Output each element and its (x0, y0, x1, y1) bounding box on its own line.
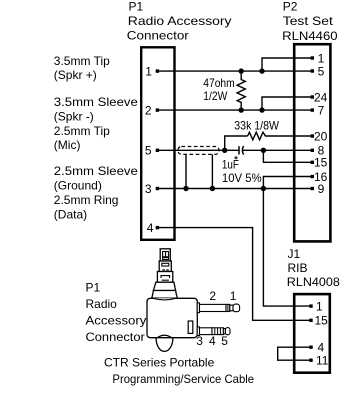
svg-text:15: 15 (315, 314, 329, 328)
P1 pin 1 (145, 64, 159, 78)
node junction R1 top (239, 68, 244, 73)
resistor R2 33k 1/8W horizontal (248, 132, 313, 140)
svg-text:33k 1/8W: 33k 1/8W (234, 119, 279, 133)
plug pin labels 3 4 5 (196, 334, 228, 348)
svg-text:Connector: Connector (86, 330, 145, 344)
capacitor C1 right curved plate (242, 146, 243, 155)
P2 title label (282, 0, 338, 43)
boot C inner detail (161, 276, 170, 281)
svg-text:7: 7 (318, 103, 325, 117)
svg-text:3.5mm Tip: 3.5mm Tip (54, 54, 110, 68)
svg-text:RIB: RIB (288, 261, 308, 275)
connector J1 box (294, 294, 330, 373)
svg-text:Test Set: Test Set (283, 14, 334, 28)
boot/body junction sag arc (154, 298, 176, 300)
capacitor C1 left plate (238, 146, 240, 154)
wire net SPKR+ : P1.1 to P2.5 (157, 70, 312, 72)
svg-text:3: 3 (145, 182, 152, 196)
bottom P1 plug label (86, 281, 147, 345)
2.5mm plug tip (223, 329, 225, 334)
value label 1uF 10V 5% (222, 157, 262, 185)
bottom dome boss (156, 338, 173, 352)
svg-text:Connector: Connector (127, 29, 189, 43)
shield drain wire left (185, 154, 187, 188)
svg-text:Programming/Service Cable: Programming/Service Cable (112, 372, 254, 386)
left pin function labels (54, 54, 138, 221)
J1 title label (287, 247, 340, 289)
svg-text:9: 9 (318, 182, 325, 196)
cable boot segment B (159, 261, 171, 272)
cable boot flare (153, 282, 175, 290)
wire net GROUND : P1.3 to P2.9 (157, 188, 312, 190)
P1 plug drawing: cable boot segment A (top) (160, 249, 170, 261)
svg-text:Accessory: Accessory (86, 314, 147, 328)
svg-text:4: 4 (209, 334, 216, 348)
svg-text:1uF: 1uF (222, 157, 239, 171)
P1 pin 5 (145, 144, 159, 158)
svg-text:10V 5%: 10V 5% (222, 171, 262, 185)
svg-text:11: 11 (316, 354, 329, 368)
svg-text:5: 5 (221, 334, 228, 348)
node junction shield left / ground (183, 186, 188, 191)
2.5mm plug (bottom): collar (197, 327, 199, 336)
2.5mm plug ring stripes (212, 328, 223, 335)
P1 pin 3 (145, 182, 159, 196)
svg-text:4: 4 (318, 341, 325, 355)
svg-text:3.5mm Sleeve: 3.5mm Sleeve (54, 95, 138, 109)
svg-text:2.5mm Ring: 2.5mm Ring (54, 193, 119, 207)
3.5mm plug tip (230, 305, 233, 311)
wire P2 pin 16 to ground to J1 pin 1 (263, 177, 312, 307)
svg-text:(Data): (Data) (54, 207, 87, 221)
3.5mm plug shaft (200, 304, 227, 311)
2.5mm plug shaft (200, 328, 213, 335)
svg-text:J1: J1 (288, 247, 301, 261)
shield drain wire right (211, 154, 213, 188)
node junction mic/C1/P2.15 (261, 148, 266, 153)
svg-text:CTR Series Portable: CTR Series Portable (104, 356, 215, 370)
node junction mic/33k (222, 148, 227, 153)
J1 pin 15 (309, 314, 328, 328)
svg-text:1: 1 (145, 64, 152, 78)
P2 pin 24 (311, 90, 328, 104)
P2 pin 8 (311, 144, 325, 158)
svg-text:(Mic): (Mic) (54, 138, 81, 152)
svg-text:5: 5 (318, 64, 325, 78)
node junction branch to P2.1 (259, 68, 264, 73)
svg-text:2: 2 (145, 103, 152, 117)
P1 pin 4 (147, 221, 159, 235)
P2 pin 9 (311, 182, 325, 196)
connector P1 box (141, 47, 174, 240)
latch detail rectangle (188, 321, 193, 333)
svg-text:24: 24 (314, 90, 328, 104)
boot B inner detail (162, 263, 169, 270)
resistor R1 47ohm 1/2W vertical (237, 71, 245, 110)
P2 pin 1 (311, 51, 325, 65)
3.5mm plug (top): collar (197, 303, 199, 313)
dome top arc detail (157, 335, 172, 337)
P2 pin 16 (311, 170, 328, 184)
wire net DATA : P1.4 to J1 pin 15 (157, 228, 311, 321)
boot A inner detail (163, 252, 169, 260)
node junction shield right / ground (210, 186, 215, 191)
svg-text:3: 3 (196, 334, 203, 348)
svg-text:(Ground): (Ground) (54, 179, 102, 193)
svg-text:P1: P1 (129, 0, 144, 13)
P2 pin 7 (311, 103, 325, 117)
plug body (147, 298, 197, 337)
cable boot flare base (152, 291, 178, 299)
J1 pin 1 (309, 299, 323, 313)
svg-text:20: 20 (314, 129, 328, 143)
P2 pin 15 (311, 156, 328, 170)
svg-text:1/2W: 1/2W (203, 89, 228, 103)
wire branch to P2 pin 24 (262, 97, 312, 110)
svg-text:1: 1 (318, 51, 325, 65)
cable boot segment C (157, 272, 172, 283)
svg-text:P1: P1 (86, 281, 101, 295)
J1 pin 11 (309, 354, 328, 368)
P1 title label (127, 0, 232, 43)
3.5mm plug insulator ring (226, 304, 230, 311)
P1 pin 2 (145, 103, 159, 117)
wire net MIC : P1.5 to C1 to P2.8 (157, 149, 238, 151)
connector P2 box (294, 44, 330, 241)
svg-text:2.5mm Sleeve: 2.5mm Sleeve (54, 164, 138, 178)
shield of mic cable (dashed) (178, 147, 219, 155)
J1 pin 4 (309, 341, 324, 355)
value label 47ohm 1/2W (203, 76, 234, 103)
plug pin labels 2 1 (209, 289, 236, 303)
C1 polarity plus mark (234, 156, 237, 159)
svg-text:5: 5 (145, 144, 152, 158)
svg-text:RLN4460: RLN4460 (282, 29, 338, 43)
svg-text:Radio Accessory: Radio Accessory (128, 14, 232, 28)
P2 pin 5 (311, 64, 325, 78)
wire J1 pin 4 to pin 11 loop (278, 347, 311, 360)
svg-text:(Spkr -): (Spkr -) (54, 109, 94, 123)
caption (104, 356, 254, 386)
wire branch to P2 pin 1 (262, 58, 312, 71)
wire branch 33k to P2 pin 20 (225, 136, 248, 150)
node junction R1 bottom (239, 107, 244, 112)
svg-text:P2: P2 (283, 0, 298, 14)
svg-text:15: 15 (314, 156, 328, 170)
svg-text:4: 4 (147, 221, 154, 235)
svg-text:47ohm: 47ohm (203, 76, 234, 90)
node junction ground / J1 drop (261, 186, 266, 191)
node junction branch to P2.24 (259, 107, 264, 112)
svg-text:2.5mm Tip: 2.5mm Tip (54, 124, 110, 138)
svg-text:2: 2 (209, 289, 216, 303)
svg-text:Radio: Radio (86, 297, 118, 311)
svg-text:RLN4008: RLN4008 (287, 275, 340, 289)
wire net SPKR- : P1.2 to P2.7 (157, 109, 312, 111)
P2 pin 20 (311, 129, 328, 143)
svg-text:1: 1 (230, 289, 237, 303)
svg-text:(Spkr +): (Spkr +) (54, 68, 97, 82)
wire branch C1 to P2 pin 15 (263, 150, 312, 162)
svg-text:1: 1 (316, 299, 323, 313)
